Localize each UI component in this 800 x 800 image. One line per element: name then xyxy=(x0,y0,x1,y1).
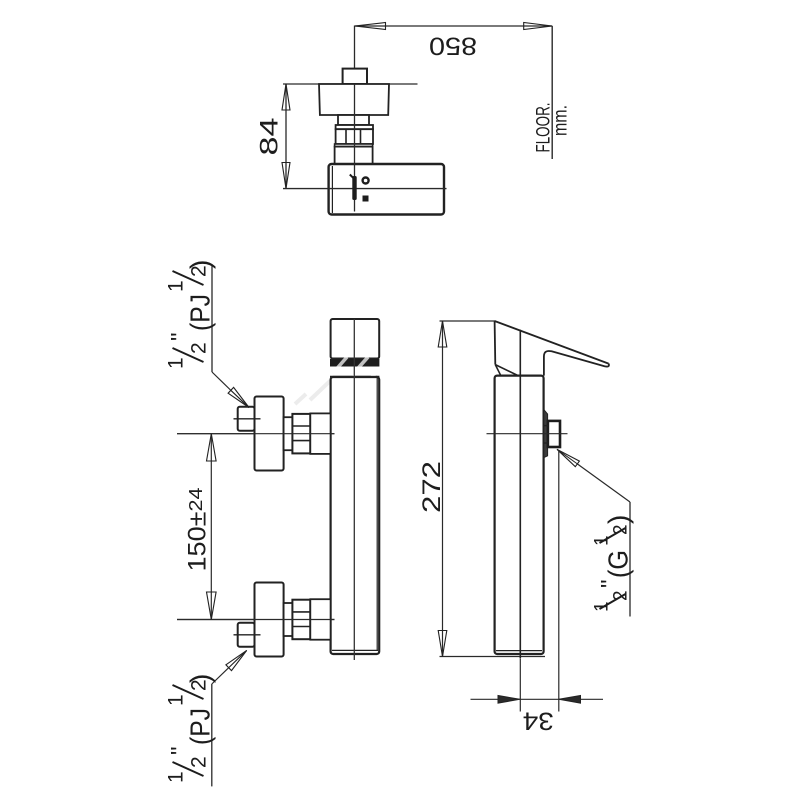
upper PJ text xyxy=(165,260,216,369)
top view spout square xyxy=(343,69,367,84)
top view handle bar xyxy=(352,176,356,200)
dim 150 line xyxy=(210,434,212,620)
dim 150 top arrow xyxy=(207,434,217,461)
lower union neck xyxy=(284,603,293,636)
front view centerline xyxy=(353,319,355,660)
lower union nut xyxy=(238,623,255,647)
svg-text:84: 84 xyxy=(256,117,284,155)
front view body xyxy=(331,377,380,654)
side view cap notch xyxy=(495,365,500,376)
svg-text:): ) xyxy=(185,260,216,269)
dimension 850 left arrow xyxy=(355,23,386,30)
watermark slashes over band xyxy=(333,357,389,377)
svg-text:": " xyxy=(167,746,194,755)
front view body inner right line xyxy=(376,376,378,651)
side view lever underside xyxy=(544,351,609,376)
dim 272 top arrow xyxy=(438,321,447,347)
side view axis line xyxy=(487,433,568,435)
redraw upper axis over unions xyxy=(177,433,335,435)
lower PJ text xyxy=(165,674,216,783)
upper PJ label underline xyxy=(211,266,213,372)
svg-text:850: 850 xyxy=(429,32,477,60)
svg-text:1: 1 xyxy=(165,694,188,706)
upper union nut mid line xyxy=(234,418,261,420)
svg-text:2: 2 xyxy=(188,342,211,354)
dimension 850 line xyxy=(355,25,553,27)
side view inner bottom line xyxy=(496,650,542,652)
svg-text:(PJ: (PJ xyxy=(185,708,216,745)
top view body mid line / dim 84 bottom extension xyxy=(283,188,447,190)
upper PJ arrow xyxy=(228,387,249,407)
top view centerline lower part xyxy=(354,84,356,212)
top view centerline xyxy=(354,26,356,212)
svg-text:34: 34 xyxy=(523,707,554,735)
lower union hex nut xyxy=(292,600,310,640)
dim 34 line xyxy=(471,698,520,700)
lower PJ label underline xyxy=(211,684,213,786)
dim 272 bottom arrow xyxy=(438,631,447,657)
dimension 850 right arrow xyxy=(524,23,553,30)
top view nut xyxy=(336,129,373,144)
svg-text:): ) xyxy=(185,674,216,683)
dim 34 left extension xyxy=(519,659,521,712)
top view band2 xyxy=(335,144,373,147)
svg-text:": " xyxy=(597,579,624,588)
upper union hex nut xyxy=(292,414,310,454)
watermark xyxy=(295,381,330,404)
upper PJ leader xyxy=(212,372,231,391)
upper union neck xyxy=(284,417,293,450)
dimension 84 line xyxy=(285,84,287,189)
top view handle tick xyxy=(350,175,353,178)
side view cap left edge xyxy=(494,321,497,365)
side view back nub xyxy=(544,410,548,458)
G label underline xyxy=(629,502,631,617)
redraw lower axis over unions xyxy=(177,619,335,621)
side view top slant / lever top xyxy=(495,321,609,364)
top view dot xyxy=(363,178,369,184)
dim 34 right arrow xyxy=(559,696,581,704)
top view neck xyxy=(338,115,369,125)
lower union adapter xyxy=(310,599,330,640)
dim 34 left arrow xyxy=(498,696,520,704)
dimension 84 extension line top xyxy=(283,83,418,85)
G label arrow xyxy=(557,449,579,466)
front view cap xyxy=(331,319,380,359)
front view joint line xyxy=(330,376,379,378)
svg-text:": " xyxy=(167,332,194,341)
svg-text:1: 1 xyxy=(165,280,188,292)
svg-text:2: 2 xyxy=(611,590,632,601)
svg-text:272: 272 xyxy=(418,461,446,513)
side view G half connector xyxy=(548,421,560,447)
svg-text:1: 1 xyxy=(165,357,188,369)
side view dim 272 bottom extension xyxy=(440,656,546,658)
dim 150 upper extension / upper axis xyxy=(177,433,335,435)
dimension 84 top arrow xyxy=(282,84,290,110)
svg-text:2: 2 xyxy=(611,524,632,535)
front view body inner bottom line xyxy=(332,649,378,651)
svg-text:1: 1 xyxy=(165,771,188,783)
lower PJ arrow xyxy=(226,650,247,670)
side view front face line xyxy=(519,330,521,659)
lower union nut mid line xyxy=(234,634,261,636)
side view body plate xyxy=(495,376,544,654)
upper union flange xyxy=(255,397,284,471)
svg-text:mm.: mm. xyxy=(551,105,572,136)
svg-text:): ) xyxy=(603,515,634,524)
lower union flange xyxy=(255,583,284,657)
dim 34 right extension xyxy=(558,451,560,712)
top view escutcheon xyxy=(319,84,389,115)
dim 150 lower extension / lower axis xyxy=(177,619,335,621)
floor reference line xyxy=(551,26,553,159)
svg-text:2: 2 xyxy=(188,756,211,768)
side view dim 272 top extension xyxy=(440,320,496,322)
front view dark band xyxy=(330,359,379,367)
top view body inner left line xyxy=(331,166,333,213)
dim 150 bottom arrow xyxy=(207,592,217,620)
top view square mark xyxy=(363,196,369,202)
lower PJ leader xyxy=(212,668,229,684)
svg-text:(PJ: (PJ xyxy=(185,294,216,331)
G label text xyxy=(592,515,634,612)
dim 272 line xyxy=(442,321,444,657)
upper union nut xyxy=(238,407,255,431)
top view adapter xyxy=(335,147,373,164)
upper union adapter xyxy=(310,413,330,454)
dimension 84 bottom arrow xyxy=(282,163,290,189)
G label leader xyxy=(577,464,630,502)
top view nut facet lines xyxy=(345,129,347,144)
side view connector ticks xyxy=(543,425,548,427)
top view band1 xyxy=(336,125,373,129)
svg-text:(G: (G xyxy=(603,550,634,578)
top view body xyxy=(329,164,444,215)
